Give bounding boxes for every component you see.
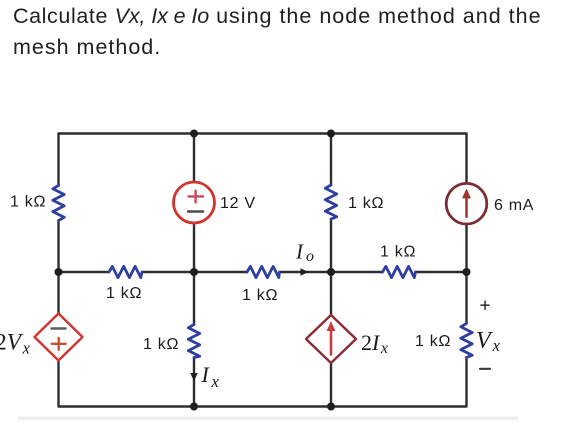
wire col2 upper <box>193 134 195 183</box>
wire top <box>59 134 467 186</box>
svg-text:+: + <box>480 296 492 317</box>
svg-text:1 kΩ: 1 kΩ <box>143 336 179 353</box>
svg-text:1 kΩ: 1 kΩ <box>348 195 384 212</box>
faint scan streak <box>18 417 518 421</box>
node dot middle col3 <box>327 268 335 276</box>
svg-text:12 V: 12 V <box>220 195 256 212</box>
node dot top col3 <box>327 130 335 138</box>
dependent source E1 2Vx diamond <box>35 314 83 361</box>
svg-text:1 kΩ: 1 kΩ <box>10 194 46 211</box>
svg-text:Ix: Ix <box>201 362 220 391</box>
svg-text:1 kΩ: 1 kΩ <box>242 287 278 304</box>
node dot bottom col2 <box>190 403 198 411</box>
node dot middle left <box>55 268 63 276</box>
node dot middle right <box>463 268 471 276</box>
current source I1 6mA circle <box>446 183 487 224</box>
resistor R3 1kΩ middle-left horizontal <box>109 266 142 277</box>
dependent source F1 2Ix diamond <box>306 315 356 363</box>
resistor R2 1kΩ col3 top vertical <box>325 185 336 219</box>
wire right rail lower <box>465 224 467 323</box>
label minus Vx <box>480 368 490 370</box>
wire left rail middle segment <box>57 221 59 314</box>
node dot middle col2 <box>190 268 198 276</box>
svg-text:Io: Io <box>295 240 314 266</box>
voltage source V1 12V circle <box>174 182 215 223</box>
svg-text:1 kΩ: 1 kΩ <box>415 333 451 350</box>
svg-text:Vx: Vx <box>476 328 501 355</box>
arrow Io on middle wire <box>301 268 309 276</box>
resistor R4 1kΩ middle-center horizontal <box>247 266 280 277</box>
svg-text:6 mA: 6 mA <box>494 197 534 214</box>
node dot top col2 <box>190 130 198 138</box>
resistor R6 1kΩ col2 bottom vertical <box>188 325 199 358</box>
wire middle row <box>59 271 467 273</box>
resistor R7 1kΩ right rail bottom vertical <box>461 324 472 358</box>
svg-text:1 kΩ: 1 kΩ <box>106 285 142 302</box>
arrow Ix on col2 <box>190 373 198 381</box>
svg-text:2Vx: 2Vx <box>0 330 31 358</box>
svg-text:2Ix: 2Ix <box>361 330 388 357</box>
resistor R5 1kΩ middle-right horizontal <box>383 266 416 277</box>
resistor R1 1kΩ left rail vertical <box>53 186 64 221</box>
wire col3 <box>330 134 332 407</box>
svg-text:1 kΩ: 1 kΩ <box>380 244 416 261</box>
wire col2 lower <box>193 223 195 407</box>
wire bottom <box>59 358 467 407</box>
node dot bottom col3 <box>327 403 335 411</box>
